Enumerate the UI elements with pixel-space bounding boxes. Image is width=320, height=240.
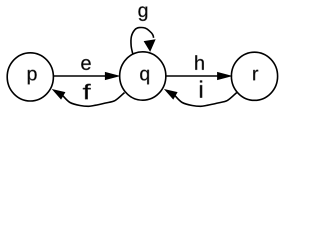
edge e: p to q	[53, 75, 105, 77]
label g	[138, 6, 147, 21]
label h	[195, 55, 203, 69]
arrowhead g	[144, 40, 155, 51]
label e	[81, 59, 90, 70]
label i	[200, 80, 202, 97]
label r	[253, 70, 258, 80]
label q	[140, 70, 149, 85]
label f	[83, 84, 91, 99]
edge h: q to r	[166, 75, 218, 77]
label p	[28, 70, 37, 85]
edge i: r to q	[175, 93, 237, 107]
state q	[120, 52, 166, 100]
arrowhead f	[53, 90, 65, 99]
arrowhead i	[165, 90, 177, 99]
state p	[7, 53, 53, 101]
state r	[231, 52, 277, 100]
edge f: q to p	[63, 93, 125, 107]
arrowhead h	[218, 72, 232, 79]
arrowhead e	[105, 72, 119, 79]
edge g: self loop on q	[131, 28, 154, 54]
